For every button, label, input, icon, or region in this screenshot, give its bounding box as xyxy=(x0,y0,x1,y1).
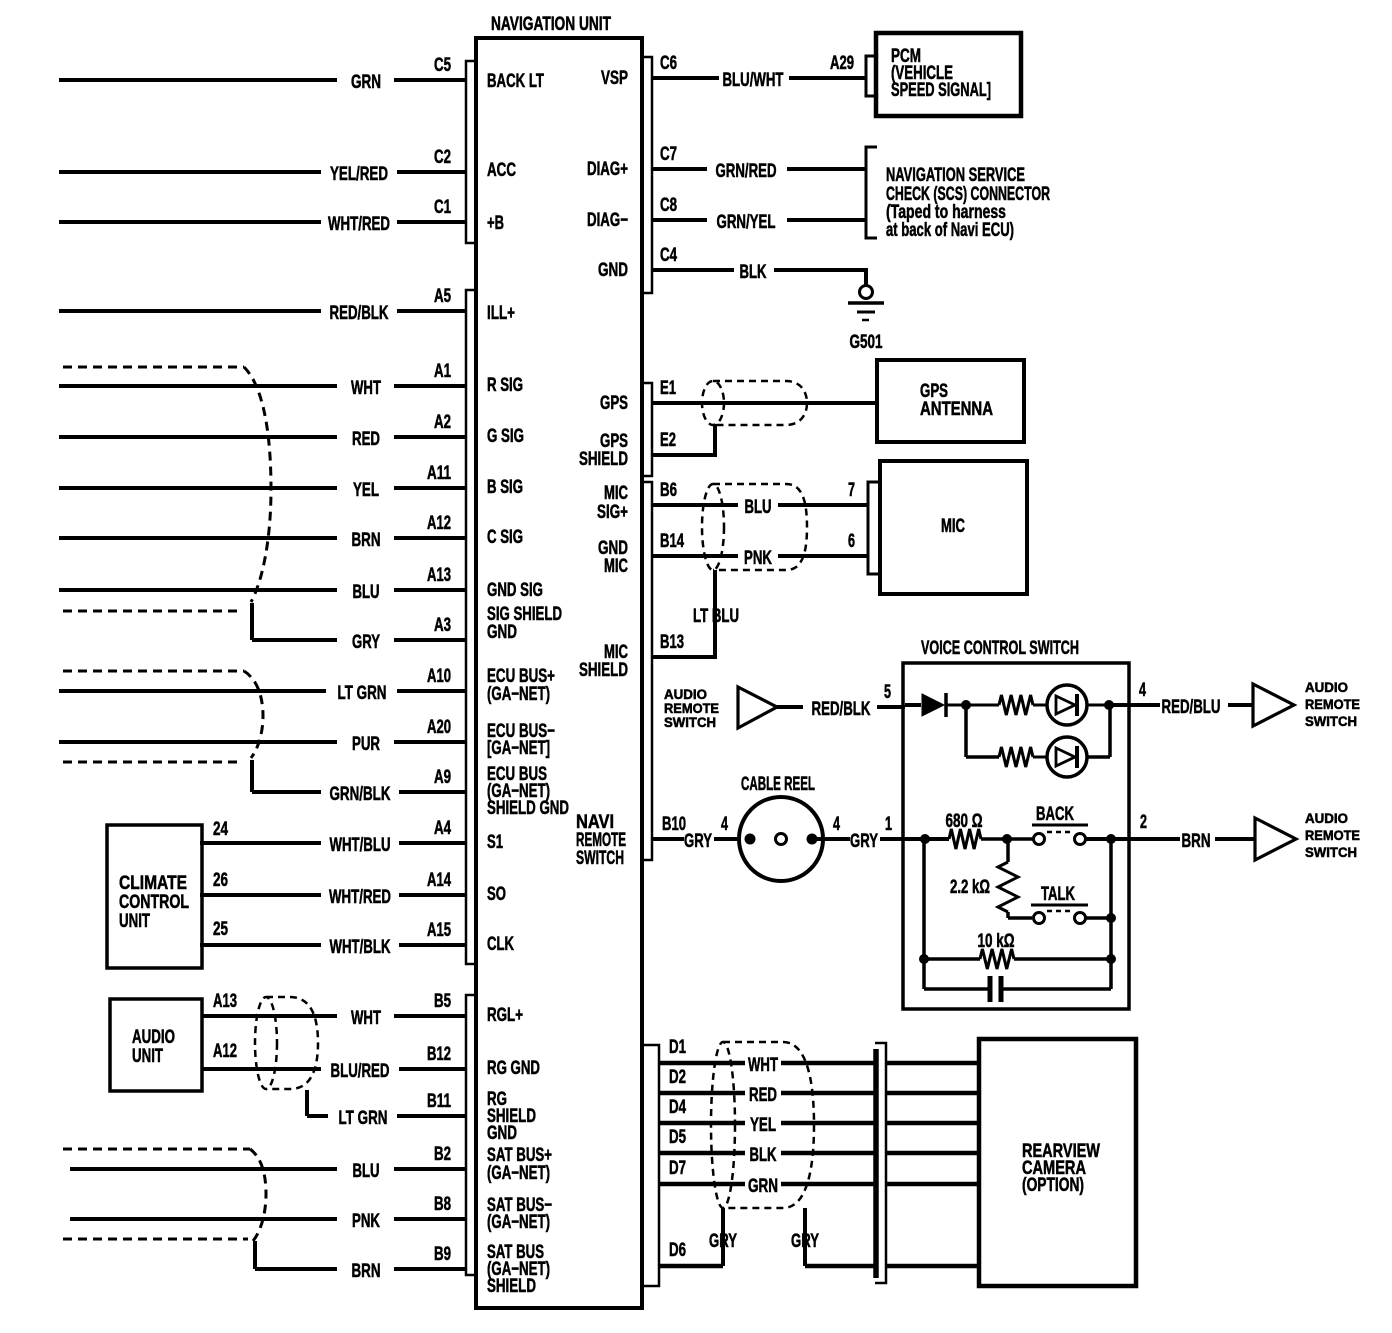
svg-text:GRN/YEL: GRN/YEL xyxy=(717,212,776,233)
svg-text:BACK: BACK xyxy=(1036,804,1074,825)
wire GRY shield drain D6 xyxy=(659,1208,737,1266)
svg-text:GRN: GRN xyxy=(351,72,381,93)
shield envelope (R/G/B/C signal wires) xyxy=(63,367,271,640)
svg-text:10 kΩ: 10 kΩ xyxy=(978,931,1015,952)
svg-text:at back of Navi ECU): at back of Navi ECU) xyxy=(886,220,1014,241)
wire RED D2 to rearview camera xyxy=(659,1067,979,1106)
svg-text:WHT/RED: WHT/RED xyxy=(329,887,391,908)
svg-text:AUDIO: AUDIO xyxy=(1305,810,1348,826)
svg-text:[GA−NET]: [GA−NET] xyxy=(487,738,550,759)
svg-text:RED/BLK: RED/BLK xyxy=(330,303,389,324)
svg-text:S1: S1 xyxy=(487,832,503,853)
svg-text:GRY: GRY xyxy=(850,831,878,852)
svg-text:A11: A11 xyxy=(427,463,451,484)
svg-text:B11: B11 xyxy=(427,1091,451,1112)
svg-text:GND SIG: GND SIG xyxy=(487,580,543,601)
resistor 2.2k ohm xyxy=(950,839,1018,918)
wire RED to nav pin A2 xyxy=(59,412,466,450)
svg-text:A12: A12 xyxy=(213,1041,237,1062)
MIC box xyxy=(880,461,1027,594)
svg-text:BRN: BRN xyxy=(352,1261,381,1282)
svg-text:A3: A3 xyxy=(434,615,451,636)
wire GRN/BLK to nav pin A9 xyxy=(252,767,466,805)
svg-text:BLK: BLK xyxy=(750,1145,777,1166)
LED2 xyxy=(1047,737,1087,777)
connector bracket E (right) xyxy=(642,383,652,476)
svg-text:MIC: MIC xyxy=(604,556,628,577)
svg-text:GRN/BLK: GRN/BLK xyxy=(330,784,391,805)
svg-text:RED: RED xyxy=(749,1085,777,1106)
svg-text:B9: B9 xyxy=(434,1244,451,1265)
svg-text:E1: E1 xyxy=(660,378,676,399)
svg-text:DIAG+: DIAG+ xyxy=(587,159,628,180)
svg-text:B10: B10 xyxy=(662,814,686,835)
audio remote switch arrow (bottom right) xyxy=(1255,818,1296,860)
wire shield drain to B9 xyxy=(253,1241,257,1269)
audio remote switch (top right) label xyxy=(1305,679,1360,729)
svg-text:A20: A20 xyxy=(427,717,451,738)
node/junction pin2 xyxy=(1106,834,1116,844)
wire shield drain to A9 xyxy=(250,760,254,792)
svg-text:REMOTE: REMOTE xyxy=(1305,696,1360,712)
audio remote switch arrow (left) xyxy=(738,687,777,728)
svg-text:D1: D1 xyxy=(669,1037,686,1058)
svg-text:SIG+: SIG+ xyxy=(597,502,628,523)
wire branch down xyxy=(964,705,968,757)
svg-text:PNK: PNK xyxy=(744,548,772,569)
svg-text:D2: D2 xyxy=(669,1067,686,1088)
wire YEL to nav pin A11 xyxy=(59,463,466,501)
wire WHT to nav pin B5 xyxy=(202,991,466,1029)
shield capsule (GPS antenna cable) xyxy=(702,381,807,425)
svg-text:CLK: CLK xyxy=(487,934,514,955)
resistor R1 (top LED branch) xyxy=(999,695,1033,715)
svg-text:PUR: PUR xyxy=(352,734,380,755)
wire GRY to nav pin A3 xyxy=(252,615,466,653)
wire BLU to nav pin A13 xyxy=(59,565,466,603)
wire GRY cable reel to VCS pin 1 xyxy=(812,814,905,852)
svg-text:A13: A13 xyxy=(427,565,451,586)
svg-text:BLU: BLU xyxy=(353,582,380,603)
LED1 xyxy=(1047,685,1087,725)
svg-text:A9: A9 xyxy=(434,767,451,788)
wire LT GRN to nav pin A10 xyxy=(59,666,466,704)
wire GRN to nav pin C5 xyxy=(59,55,466,93)
svg-text:YEL: YEL xyxy=(750,1115,776,1136)
svg-text:GND: GND xyxy=(598,260,628,281)
svg-text:RED/BLU: RED/BLU xyxy=(1162,697,1221,718)
wire PUR to nav pin A20 xyxy=(59,717,466,755)
svg-text:BRN: BRN xyxy=(352,530,381,551)
wire VCS pin 4 out xyxy=(1109,703,1129,707)
wire shield drain to B11 xyxy=(305,1090,309,1116)
svg-text:ACC: ACC xyxy=(487,160,516,181)
svg-text:C1: C1 xyxy=(434,197,451,218)
svg-text:4: 4 xyxy=(833,814,840,835)
wire RED/BLU pin 4 to audio remote switch xyxy=(1129,680,1252,718)
svg-text:PNK: PNK xyxy=(352,1211,380,1232)
svg-text:A1: A1 xyxy=(434,361,451,382)
shield capsule (audio unit wires) xyxy=(255,997,318,1116)
svg-text:SWITCH: SWITCH xyxy=(664,714,716,730)
audio remote switch (bottom right) label xyxy=(1305,810,1360,860)
svg-text:7: 7 xyxy=(848,480,855,501)
wire left vertical bus xyxy=(922,839,926,989)
wire GRN/RED C7 to SCS connector xyxy=(652,144,866,182)
svg-text:AUDIO: AUDIO xyxy=(1305,679,1348,695)
wire GRY shield drain camera side xyxy=(791,1208,979,1266)
svg-text:DIAG−: DIAG− xyxy=(587,210,628,231)
wire PNK to nav pin B8 xyxy=(70,1194,466,1232)
svg-text:UNIT: UNIT xyxy=(132,1046,163,1067)
svg-text:B13: B13 xyxy=(660,632,684,653)
svg-text:RED/BLK: RED/BLK xyxy=(812,699,871,720)
svg-text:MIC: MIC xyxy=(604,483,628,504)
svg-text:CABLE REEL: CABLE REEL xyxy=(741,774,815,795)
node/junction talk right xyxy=(1106,913,1116,923)
audio unit box xyxy=(110,991,237,1091)
svg-text:B8: B8 xyxy=(434,1194,451,1215)
svg-text:A13: A13 xyxy=(213,991,237,1012)
MIC connector bracket xyxy=(868,482,880,574)
wire BLU to nav pin B2 xyxy=(70,1144,466,1182)
connector bracket A (left) xyxy=(466,290,476,964)
svg-text:BLK: BLK xyxy=(740,262,767,283)
node/junction left xyxy=(920,834,930,844)
wire BLU/RED to nav pin B12 xyxy=(202,1044,466,1082)
svg-text:BRN: BRN xyxy=(1182,831,1211,852)
svg-text:ANTENNA: ANTENNA xyxy=(920,399,993,420)
svg-text:SPEED SIGNAL]: SPEED SIGNAL] xyxy=(891,80,991,101)
wire WHT D1 to rearview camera xyxy=(659,1037,979,1076)
svg-text:A5: A5 xyxy=(434,286,451,307)
svg-text:C2: C2 xyxy=(434,147,451,168)
camera connector bracket xyxy=(875,1043,886,1283)
wire VCS pin5 internal xyxy=(905,703,921,707)
wire BLU B6 to MIC pin 7 xyxy=(652,480,868,518)
svg-text:B6: B6 xyxy=(660,480,677,501)
svg-text:A12: A12 xyxy=(427,513,451,534)
navigation service check (SCS) connector bracket xyxy=(866,147,1050,241)
cable reel xyxy=(739,774,823,881)
svg-text:1: 1 xyxy=(885,814,892,835)
nav unit internal pin names (left column) xyxy=(487,71,569,1297)
svg-text:B SIG: B SIG xyxy=(487,477,523,498)
svg-text:680 Ω: 680 Ω xyxy=(946,811,983,832)
capacitor C1 xyxy=(924,976,1111,1002)
svg-text:CONTROL: CONTROL xyxy=(119,892,189,913)
voice control switch box xyxy=(903,638,1129,1009)
svg-text:BACK LT: BACK LT xyxy=(487,71,544,92)
svg-text:GND: GND xyxy=(487,622,517,643)
svg-text:+B: +B xyxy=(487,213,504,234)
connector bracket C (right) xyxy=(642,57,652,293)
wire BRN to nav pin A12 xyxy=(59,513,466,551)
climate control unit box xyxy=(107,819,228,968)
svg-text:VSP: VSP xyxy=(601,68,628,89)
svg-text:24: 24 xyxy=(213,819,228,840)
svg-text:D4: D4 xyxy=(669,1097,686,1118)
wire BLK D5 to rearview camera xyxy=(659,1127,979,1166)
svg-text:SHIELD GND: SHIELD GND xyxy=(487,798,569,819)
shield envelope (ECU BUS wires) xyxy=(63,671,263,792)
nav unit internal pin names (right column) xyxy=(576,68,628,869)
wire PNK B14 to MIC pin 6 xyxy=(652,531,868,569)
shield capsule (MIC cable) xyxy=(702,484,807,570)
wire WHT/RED to nav pin C1 xyxy=(59,197,466,235)
shield capsule (camera cable) xyxy=(711,1042,814,1208)
svg-text:(GA−NET): (GA−NET) xyxy=(487,1212,550,1233)
wire to LED resistor xyxy=(966,704,999,707)
svg-text:B2: B2 xyxy=(434,1144,451,1165)
wire BLU/WHT C6 to PCM A29 xyxy=(652,53,866,91)
svg-text:C5: C5 xyxy=(434,55,451,76)
svg-text:RG GND: RG GND xyxy=(487,1058,540,1079)
node/junction LED output xyxy=(1104,700,1114,710)
svg-text:AUDIO: AUDIO xyxy=(132,1027,175,1048)
svg-text:WHT: WHT xyxy=(748,1055,778,1076)
wire right vertical bus xyxy=(1109,839,1113,989)
svg-text:C6: C6 xyxy=(660,53,677,74)
connector bracket B (left) xyxy=(466,995,476,1275)
svg-text:25: 25 xyxy=(213,919,228,940)
svg-text:SO: SO xyxy=(487,884,506,905)
svg-text:BLU/WHT: BLU/WHT xyxy=(723,70,784,91)
wire YEL/RED to nav pin C2 xyxy=(59,147,466,185)
svg-text:D6: D6 xyxy=(669,1240,686,1261)
svg-text:B14: B14 xyxy=(660,531,684,552)
wire GRN D7 to rearview camera xyxy=(659,1158,979,1197)
svg-text:YEL/RED: YEL/RED xyxy=(330,164,388,185)
svg-text:SHIELD: SHIELD xyxy=(579,660,628,681)
svg-text:WHT: WHT xyxy=(351,1008,381,1029)
wire LT GRN to nav pin B11 xyxy=(307,1091,466,1129)
svg-text:C8: C8 xyxy=(660,195,677,216)
svg-text:BLU: BLU xyxy=(745,497,772,518)
svg-text:6: 6 xyxy=(848,531,855,552)
node/junction at 680 output xyxy=(1002,834,1012,844)
svg-text:WHT/BLU: WHT/BLU xyxy=(330,835,391,856)
PCM connector bracket xyxy=(866,56,876,96)
svg-text:WHT/RED: WHT/RED xyxy=(328,214,390,235)
svg-text:C4: C4 xyxy=(660,245,677,266)
svg-text:VOICE CONTROL SWITCH: VOICE CONTROL SWITCH xyxy=(921,638,1079,659)
svg-text:ILL+: ILL+ xyxy=(487,303,515,324)
svg-text:SHIELD: SHIELD xyxy=(487,1276,536,1297)
svg-text:4: 4 xyxy=(721,814,728,835)
GPS antenna box xyxy=(877,360,1024,442)
svg-text:SWITCH: SWITCH xyxy=(576,848,624,869)
svg-text:CLIMATE: CLIMATE xyxy=(119,873,187,894)
wire RED/BLK to voice control switch pin 5 xyxy=(777,682,905,720)
svg-text:26: 26 xyxy=(213,870,228,891)
TALK switch xyxy=(1008,884,1116,924)
diode D1 xyxy=(922,693,962,717)
resistor R2 (lower LED branch) xyxy=(999,747,1033,767)
svg-text:GRY: GRY xyxy=(684,831,712,852)
wire E1 to GPS antenna xyxy=(652,378,877,403)
VCS internal main wire xyxy=(905,837,949,841)
svg-text:NAVIGATION SERVICE: NAVIGATION SERVICE xyxy=(886,165,1025,186)
svg-text:GRN/RED: GRN/RED xyxy=(716,161,777,182)
wire GRY B10 to cable reel xyxy=(652,814,748,852)
svg-text:LT GRN: LT GRN xyxy=(339,1108,388,1129)
svg-text:E2: E2 xyxy=(660,430,676,451)
svg-text:G501: G501 xyxy=(850,332,883,353)
wire E2 GPS shield xyxy=(652,424,717,455)
wire YEL D4 to rearview camera xyxy=(659,1097,979,1136)
connector bracket D (right) xyxy=(644,1045,659,1286)
svg-text:GRY: GRY xyxy=(709,1231,737,1252)
node/junction after diode xyxy=(961,700,971,710)
svg-text:B5: B5 xyxy=(434,991,451,1012)
svg-text:C SIG: C SIG xyxy=(487,527,523,548)
svg-text:D7: D7 xyxy=(669,1158,686,1179)
svg-text:A29: A29 xyxy=(830,53,854,74)
wire GRN/YEL C8 to SCS connector xyxy=(652,195,866,233)
svg-text:(OPTION): (OPTION) xyxy=(1022,1175,1084,1196)
svg-text:G SIG: G SIG xyxy=(487,426,524,447)
resistor 10k ohm xyxy=(919,931,1116,969)
wire RED/BLK to nav pin A5 xyxy=(59,286,466,324)
audio remote switch arrow (top right) xyxy=(1253,684,1294,726)
connector bracket C (left) xyxy=(466,61,476,243)
svg-text:WHT: WHT xyxy=(351,378,381,399)
camera harness connector bar xyxy=(873,1049,879,1278)
svg-text:4: 4 xyxy=(1139,680,1146,701)
svg-text:RGL+: RGL+ xyxy=(487,1005,523,1026)
svg-text:A15: A15 xyxy=(427,920,451,941)
svg-text:TALK: TALK xyxy=(1041,884,1075,905)
svg-text:REMOTE: REMOTE xyxy=(1305,827,1360,843)
connector bracket B (right) xyxy=(642,482,652,860)
wire shield drain to A3 xyxy=(250,603,254,640)
resistor 680 ohm xyxy=(946,811,983,849)
svg-text:C7: C7 xyxy=(660,144,677,165)
svg-text:LT BLU: LT BLU xyxy=(693,606,739,627)
shield envelope (SAT BUS wires) xyxy=(63,1149,266,1269)
svg-text:GRY: GRY xyxy=(352,632,380,653)
wire WHT to nav pin A1 xyxy=(59,361,466,399)
svg-text:A14: A14 xyxy=(427,870,451,891)
svg-text:NAVIGATION UNIT: NAVIGATION UNIT xyxy=(491,14,611,35)
svg-text:GPS: GPS xyxy=(600,393,628,414)
svg-text:BLU: BLU xyxy=(353,1161,380,1182)
svg-text:D5: D5 xyxy=(669,1127,686,1148)
svg-text:GRY: GRY xyxy=(791,1231,819,1252)
svg-text:UNIT: UNIT xyxy=(119,911,150,932)
wire LED1 to node xyxy=(1087,704,1110,707)
rearview camera box xyxy=(979,1039,1136,1286)
svg-text:2.2 kΩ: 2.2 kΩ xyxy=(950,877,990,898)
svg-text:SWITCH: SWITCH xyxy=(1305,844,1357,860)
navigation unit U1 box xyxy=(476,14,642,1308)
svg-text:GND: GND xyxy=(487,1123,517,1144)
svg-text:(GA−NET): (GA−NET) xyxy=(487,684,550,705)
svg-text:LT GRN: LT GRN xyxy=(338,683,387,704)
LED2 branch lower xyxy=(966,705,1110,777)
ground G501 xyxy=(848,286,884,354)
svg-text:2: 2 xyxy=(1140,812,1147,833)
svg-text:RED: RED xyxy=(352,429,380,450)
svg-text:SWITCH: SWITCH xyxy=(1305,713,1357,729)
svg-text:A4: A4 xyxy=(434,818,451,839)
wire BRN to nav pin B9 xyxy=(255,1244,466,1282)
svg-text:(GA−NET): (GA−NET) xyxy=(487,1163,550,1184)
wire BRN pin 2 to audio remote switch xyxy=(1129,812,1255,852)
svg-text:GRN: GRN xyxy=(748,1176,778,1197)
svg-text:YEL: YEL xyxy=(353,480,379,501)
svg-text:A10: A10 xyxy=(427,666,451,687)
wire BLK C4 to ground G501 xyxy=(652,245,868,285)
svg-text:5: 5 xyxy=(884,682,891,703)
svg-text:A2: A2 xyxy=(434,412,451,433)
wire branch up to node xyxy=(1087,755,1110,759)
svg-text:BLU/RED: BLU/RED xyxy=(331,1061,390,1082)
svg-text:SHIELD: SHIELD xyxy=(579,449,628,470)
wire WHT/BLK to nav pin A15 xyxy=(200,920,466,958)
svg-text:MIC: MIC xyxy=(941,516,965,537)
audio remote switch (left) label xyxy=(664,686,719,730)
wire WHT/BLU to nav pin A4 xyxy=(200,818,466,856)
BACK switch xyxy=(1032,804,1088,845)
wire WHT/RED to nav pin A14 xyxy=(200,870,466,908)
wire resistor to LED1 xyxy=(1033,704,1047,707)
svg-text:R SIG: R SIG xyxy=(487,375,523,396)
PCM (vehicle speed signal) box xyxy=(876,33,1021,116)
svg-text:B12: B12 xyxy=(427,1044,451,1065)
svg-text:WHT/BLK: WHT/BLK xyxy=(330,937,391,958)
wire LT BLU mic shield drain to B13 xyxy=(652,570,739,657)
